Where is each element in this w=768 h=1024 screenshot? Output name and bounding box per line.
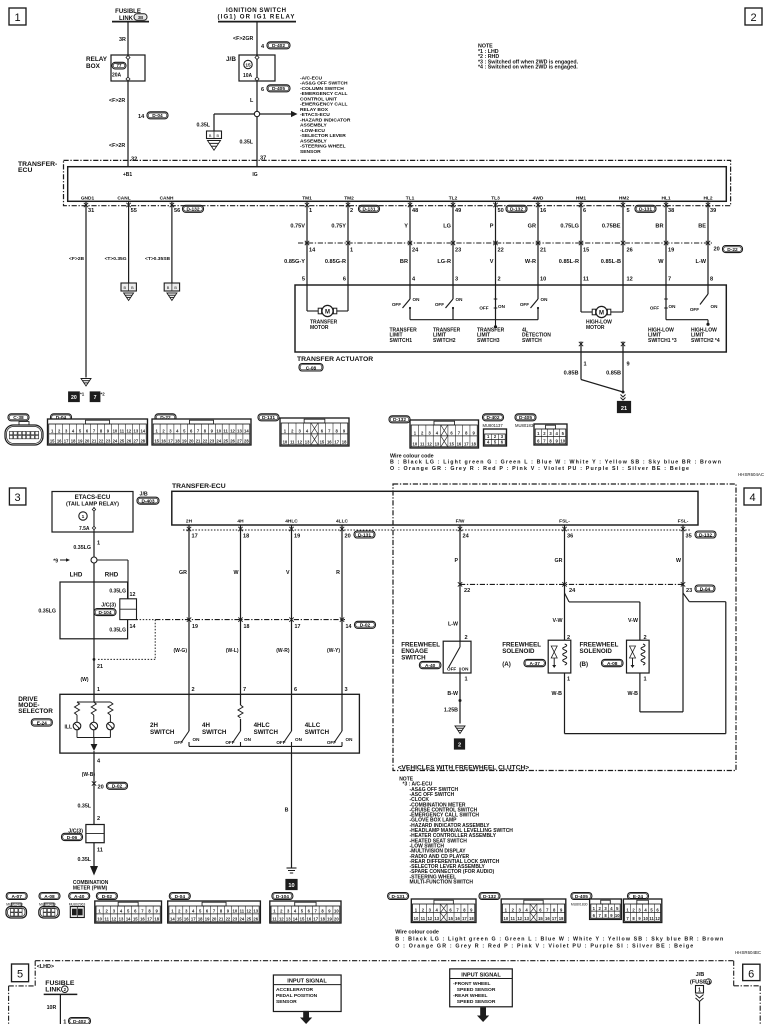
svg-text:1: 1 (97, 687, 100, 693)
svg-text:BOX: BOX (86, 63, 101, 70)
svg-text:GR: GR (528, 224, 536, 230)
svg-text:-STEERING WHEEL: -STEERING WHEEL (300, 144, 346, 150)
svg-text:W: W (676, 558, 681, 564)
svg-text:ON: ON (669, 304, 677, 309)
svg-text:23: 23 (210, 439, 215, 444)
svg-text:12: 12 (427, 916, 432, 921)
svg-text:OFF: OFF (174, 740, 183, 745)
svg-text:D-104: D-104 (276, 894, 289, 900)
svg-text:MOTOR: MOTOR (310, 325, 329, 331)
svg-text:11: 11 (421, 916, 426, 921)
svg-text:1: 1 (567, 677, 570, 683)
svg-text:35: 35 (686, 534, 692, 540)
svg-text:50: 50 (498, 208, 504, 214)
svg-text:OFF: OFF (520, 302, 529, 307)
svg-text:SPEED SENSOR: SPEED SENSOR (457, 999, 496, 1005)
svg-text:0.35L: 0.35L (77, 804, 91, 810)
svg-text:0.35LG: 0.35LG (109, 589, 126, 595)
svg-text:1: 1 (465, 677, 468, 683)
svg-text:(IG1) OR IG1 RELAY: (IG1) OR IG1 RELAY (218, 14, 295, 21)
svg-text:D-02: D-02 (102, 894, 113, 900)
svg-text:ON: ON (462, 667, 470, 672)
svg-text:20A: 20A (112, 73, 122, 79)
svg-text:10: 10 (413, 442, 418, 447)
svg-text:W: W (658, 259, 664, 265)
svg-text:BE: BE (698, 224, 706, 230)
svg-text:6: 6 (294, 687, 297, 693)
svg-text:10A: 10A (243, 73, 253, 79)
svg-text:J/B: J/B (696, 972, 705, 978)
svg-text:14: 14 (126, 917, 131, 922)
svg-text:16: 16 (327, 440, 332, 445)
svg-text:ON: ON (456, 297, 464, 302)
svg-text:19: 19 (205, 917, 210, 922)
svg-text:15: 15 (583, 248, 589, 254)
svg-text:HHSR604AC: HHSR604AC (738, 472, 764, 477)
svg-text:D-132: D-132 (393, 417, 406, 423)
svg-text:OFF: OFF (225, 740, 234, 745)
svg-text:(W-B): (W-B) (82, 772, 96, 778)
svg-text:D-104: D-104 (98, 610, 111, 616)
svg-text:<F>2B: <F>2B (69, 256, 84, 262)
svg-text:F/W: F/W (456, 519, 465, 525)
svg-text:0.85B: 0.85B (606, 371, 621, 377)
svg-text:-REAR WHEEL: -REAR WHEEL (453, 993, 488, 999)
svg-text:D-132: D-132 (699, 532, 712, 538)
svg-text:OFF: OFF (479, 306, 488, 311)
svg-text:TM1: TM1 (302, 196, 312, 202)
svg-text:TRANSFER ACTUATOR: TRANSFER ACTUATOR (297, 356, 373, 363)
svg-text:SPEED SENSOR: SPEED SENSOR (457, 987, 496, 993)
svg-text:1: 1 (644, 677, 647, 683)
svg-text:10: 10 (283, 440, 288, 445)
svg-text:16: 16 (545, 916, 550, 921)
svg-text:11: 11 (420, 442, 425, 447)
svg-text:0.85G-Y: 0.85G-Y (284, 259, 305, 265)
svg-text:B: B (217, 134, 220, 138)
svg-text:21: 21 (621, 406, 627, 412)
svg-text:C-08: C-08 (306, 365, 317, 371)
svg-text:A-07: A-07 (11, 894, 22, 900)
svg-text:SWITCH1 *3: SWITCH1 *3 (648, 338, 677, 344)
svg-text:-EMERGENCY CALL: -EMERGENCY CALL (300, 91, 347, 97)
svg-text:18: 18 (154, 917, 159, 922)
svg-text:17: 17 (168, 439, 173, 444)
svg-text:10: 10 (216, 429, 221, 434)
svg-text:-COLUMN SWITCH: -COLUMN SWITCH (300, 86, 344, 92)
svg-text:M: M (599, 310, 604, 316)
svg-text:16: 16 (307, 917, 312, 922)
svg-text:0.35LG: 0.35LG (38, 609, 56, 615)
svg-text:31: 31 (88, 208, 94, 214)
svg-text:PEDAL POSITION: PEDAL POSITION (276, 993, 318, 999)
svg-text:TRANSFER-ECU: TRANSFER-ECU (172, 483, 226, 490)
svg-text:E-24: E-24 (37, 720, 47, 726)
svg-text:D-131: D-131 (639, 207, 652, 213)
svg-text:10: 10 (643, 916, 648, 921)
svg-text:1: 1 (14, 12, 20, 24)
svg-text:HM1: HM1 (576, 196, 586, 202)
svg-text:14: 14 (130, 624, 136, 630)
svg-text:27: 27 (237, 439, 242, 444)
svg-text:18: 18 (320, 917, 325, 922)
svg-text:7: 7 (94, 395, 97, 401)
svg-text:4HLC: 4HLC (285, 519, 298, 525)
svg-text:B: B (124, 286, 127, 290)
svg-text:32: 32 (131, 157, 137, 163)
svg-text:18: 18 (71, 439, 76, 444)
svg-text:OFF: OFF (276, 740, 285, 745)
svg-text:11: 11 (649, 916, 654, 921)
svg-text:C-38: C-38 (13, 415, 24, 421)
svg-text:11: 11 (120, 429, 125, 434)
svg-text:SOLENOID: SOLENOID (580, 648, 613, 655)
svg-text:7: 7 (668, 277, 671, 283)
svg-text:15: 15 (245, 62, 251, 68)
svg-text:2: 2 (192, 687, 195, 693)
svg-text:10: 10 (615, 913, 620, 918)
svg-text:MU801830: MU801830 (571, 903, 588, 907)
svg-text:21: 21 (92, 439, 97, 444)
svg-text:12: 12 (297, 440, 302, 445)
svg-text:-A/C-ECU: -A/C-ECU (300, 75, 322, 81)
svg-text:HL1: HL1 (661, 196, 670, 202)
svg-text:13: 13 (253, 909, 258, 914)
svg-text:21: 21 (540, 248, 546, 254)
svg-text:1: 1 (698, 987, 701, 993)
svg-text:ON: ON (711, 304, 719, 309)
svg-text:3: 3 (15, 492, 21, 504)
svg-text:0.35L: 0.35L (239, 140, 253, 146)
svg-text:CANH: CANH (160, 196, 174, 202)
svg-text:0.85B: 0.85B (564, 371, 579, 377)
svg-text:14: 14 (309, 248, 316, 254)
svg-text:10R: 10R (47, 1005, 57, 1011)
svg-text:12: 12 (130, 592, 136, 598)
svg-text:CANL: CANL (117, 196, 130, 202)
svg-text:16: 16 (457, 442, 462, 447)
svg-text:INPUT SIGNAL: INPUT SIGNAL (461, 972, 501, 978)
svg-text:METER (PWM): METER (PWM) (73, 886, 108, 892)
svg-text:24: 24 (239, 917, 244, 922)
svg-text:17: 17 (295, 624, 301, 630)
svg-text:B-W: B-W (447, 691, 458, 697)
svg-text:10: 10 (288, 883, 294, 889)
svg-text:MU801830: MU801830 (515, 423, 536, 428)
svg-text:20: 20 (345, 534, 351, 540)
svg-text:15: 15 (449, 442, 454, 447)
svg-text:10: 10 (233, 909, 238, 914)
svg-text:15: 15 (300, 917, 305, 922)
svg-text:B: B (209, 134, 212, 138)
svg-text:14: 14 (170, 917, 175, 922)
svg-text:SWITCH: SWITCH (150, 729, 175, 736)
svg-text:<F>2R: <F>2R (109, 98, 125, 104)
svg-text:D-131: D-131 (262, 415, 275, 421)
svg-text:GR: GR (179, 570, 187, 576)
svg-text:D-02: D-02 (112, 784, 123, 790)
svg-text:R: R (336, 570, 340, 576)
svg-text:L-W: L-W (448, 622, 458, 628)
svg-text:16: 16 (184, 917, 189, 922)
svg-text:19: 19 (327, 917, 332, 922)
svg-text:15: 15 (707, 980, 711, 984)
svg-text:SENSOR: SENSOR (276, 999, 297, 1005)
svg-text:24: 24 (463, 534, 470, 540)
svg-text:SWITCH: SWITCH (305, 729, 330, 736)
svg-text:12: 12 (112, 917, 117, 922)
svg-text:0.35L: 0.35L (77, 857, 91, 863)
svg-text:6: 6 (748, 969, 754, 981)
svg-text:A-08: A-08 (44, 894, 55, 900)
svg-text:A-08: A-08 (607, 661, 618, 667)
svg-text:B: B (131, 286, 134, 290)
svg-text:Wire colour code: Wire colour code (395, 930, 439, 936)
svg-text:ASSEMBLY: ASSEMBLY (300, 123, 327, 129)
svg-text:36: 36 (567, 534, 573, 540)
svg-text:P: P (490, 224, 494, 230)
svg-text:6: 6 (261, 87, 264, 93)
svg-text:18: 18 (244, 624, 250, 630)
svg-text:GND1: GND1 (81, 196, 95, 202)
svg-text:O : Orange GR : Grey R :: O : Orange GR : Grey R : Red P : Pink V … (395, 944, 693, 950)
svg-text:20: 20 (212, 917, 217, 922)
svg-text:15: 15 (448, 916, 453, 921)
svg-text:9: 9 (627, 362, 630, 368)
svg-text:D-403: D-403 (141, 499, 154, 505)
svg-text:18: 18 (198, 917, 203, 922)
svg-text:2: 2 (97, 816, 100, 822)
svg-text:2H: 2H (186, 519, 193, 525)
svg-text:J/C(3): J/C(3) (101, 603, 116, 609)
svg-text:HM2: HM2 (619, 196, 629, 202)
svg-text:M: M (325, 309, 330, 315)
svg-text:8: 8 (710, 277, 713, 283)
svg-text:17: 17 (334, 440, 339, 445)
svg-text:OFF: OFF (447, 667, 456, 672)
svg-text:2: 2 (458, 742, 461, 748)
svg-text:ON: ON (346, 737, 354, 742)
svg-text:BR: BR (400, 259, 408, 265)
svg-text:TL3: TL3 (491, 196, 500, 202)
svg-text:L-W: L-W (695, 259, 706, 265)
svg-text:MULTI-FUNCTION SWITCH: MULTI-FUNCTION SWITCH (410, 880, 474, 886)
svg-text:3: 3 (455, 277, 458, 283)
svg-text:26: 26 (253, 917, 258, 922)
svg-text:24: 24 (113, 439, 118, 444)
svg-text:-AS&G OFF SWITCH: -AS&G OFF SWITCH (300, 81, 348, 87)
svg-text:OFF: OFF (690, 307, 699, 312)
svg-text:D-04: D-04 (152, 113, 163, 119)
svg-text:19: 19 (294, 534, 300, 540)
svg-text:SWITCH: SWITCH (202, 729, 227, 736)
svg-text:INPUT SIGNAL: INPUT SIGNAL (287, 978, 327, 984)
svg-text:2: 2 (567, 635, 570, 641)
svg-text:13: 13 (305, 440, 310, 445)
svg-text:24: 24 (569, 588, 576, 594)
svg-text:2: 2 (465, 635, 468, 641)
svg-text:MOTOR: MOTOR (586, 325, 605, 331)
svg-text:7: 7 (243, 687, 246, 693)
svg-text:W: W (234, 570, 239, 576)
svg-text:D-132: D-132 (510, 207, 523, 213)
svg-text:12: 12 (427, 442, 432, 447)
svg-text:D-405: D-405 (272, 86, 285, 92)
svg-text:(W-L): (W-L) (226, 648, 239, 654)
svg-text:19: 19 (182, 439, 187, 444)
svg-text:11: 11 (104, 917, 109, 922)
svg-text:D-131: D-131 (392, 894, 405, 900)
svg-text:D-22: D-22 (727, 247, 738, 253)
svg-text:6: 6 (343, 277, 346, 283)
svg-text:12: 12 (627, 277, 633, 283)
svg-text:28: 28 (244, 439, 249, 444)
svg-text:18: 18 (471, 442, 476, 447)
svg-text:IG: IG (252, 172, 257, 178)
svg-text:26: 26 (127, 439, 132, 444)
svg-text:11: 11 (290, 440, 295, 445)
svg-text:0.75LG: 0.75LG (560, 224, 579, 230)
svg-text:D-405: D-405 (519, 415, 532, 421)
svg-text:0.35LG: 0.35LG (109, 628, 126, 634)
svg-text:MU802963: MU802963 (69, 903, 86, 907)
svg-text:ACCELERATOR: ACCELERATOR (276, 987, 314, 993)
svg-text:10: 10 (504, 916, 509, 921)
svg-text:15: 15 (133, 917, 138, 922)
svg-text:24: 24 (412, 248, 419, 254)
svg-text:1: 1 (350, 248, 353, 254)
svg-text:B : Black LG : Light green: B : Black LG : Light green G : Green L :… (395, 937, 723, 943)
svg-text:D-04: D-04 (700, 586, 711, 592)
svg-text:1: 1 (97, 541, 100, 547)
svg-text:13: 13 (134, 429, 139, 434)
svg-text:14: 14 (293, 917, 298, 922)
svg-text:ETACS-ECU: ETACS-ECU (75, 494, 111, 501)
svg-text:0.75BE: 0.75BE (602, 224, 621, 230)
svg-text:10: 10 (560, 439, 565, 444)
svg-text:15: 15 (538, 916, 543, 921)
svg-text:17: 17 (462, 916, 467, 921)
svg-text:23: 23 (233, 917, 238, 922)
svg-text:D-131: D-131 (362, 207, 375, 213)
svg-text:*9: *9 (53, 559, 58, 565)
svg-text:<LHD>: <LHD> (37, 964, 54, 970)
svg-text:14: 14 (346, 624, 352, 630)
svg-text:W-B: W-B (552, 691, 563, 697)
svg-text:D-132: D-132 (186, 207, 199, 213)
svg-text:1: 1 (63, 1020, 66, 1024)
svg-text:16: 16 (140, 917, 145, 922)
svg-text:20: 20 (189, 439, 194, 444)
svg-text:TL1: TL1 (406, 196, 415, 202)
svg-text:*1: *1 (80, 392, 85, 397)
svg-text:4WD: 4WD (533, 196, 544, 202)
svg-text:18: 18 (469, 916, 474, 921)
svg-text:ON: ON (244, 737, 252, 742)
svg-text:FSL-: FSL- (678, 519, 689, 525)
svg-text:21: 21 (219, 917, 224, 922)
svg-text:28: 28 (140, 439, 145, 444)
svg-text:22: 22 (203, 439, 208, 444)
svg-text:25: 25 (223, 439, 228, 444)
svg-text:0.85L-B: 0.85L-B (601, 259, 621, 265)
svg-text:(W-G): (W-G) (173, 648, 187, 654)
svg-text:D-02: D-02 (360, 623, 371, 629)
svg-text:10: 10 (97, 917, 102, 922)
svg-text:24: 24 (216, 439, 221, 444)
svg-text:11: 11 (583, 277, 589, 283)
svg-text:V-W: V-W (628, 618, 638, 624)
svg-text:27: 27 (134, 439, 139, 444)
svg-text:-LOW-ECU: -LOW-ECU (300, 128, 325, 134)
svg-text:26: 26 (230, 439, 235, 444)
svg-text:V: V (286, 570, 290, 576)
svg-text:W-B: W-B (628, 691, 639, 697)
svg-text:(W-Y): (W-Y) (327, 648, 340, 654)
svg-text:13: 13 (434, 916, 439, 921)
svg-text:P: P (454, 558, 458, 564)
svg-text:SWITCH2 *4: SWITCH2 *4 (691, 338, 720, 344)
svg-text:14: 14 (140, 429, 145, 434)
svg-text:16: 16 (57, 439, 62, 444)
svg-text:22: 22 (226, 917, 231, 922)
svg-text:15: 15 (154, 439, 159, 444)
svg-text:22: 22 (99, 439, 104, 444)
svg-text:13: 13 (237, 429, 242, 434)
svg-text:0.35LG: 0.35LG (73, 545, 91, 551)
svg-text:4LLC: 4LLC (336, 519, 349, 525)
svg-text:20: 20 (98, 785, 104, 791)
svg-text:17: 17 (192, 534, 198, 540)
svg-text:*2: *2 (101, 392, 106, 397)
svg-text:10: 10 (113, 429, 118, 434)
svg-text:16: 16 (161, 439, 166, 444)
svg-text:12: 12 (246, 909, 251, 914)
svg-text:39: 39 (710, 208, 716, 214)
svg-text:+B1: +B1 (123, 172, 133, 178)
svg-text:56: 56 (174, 208, 180, 214)
svg-text:23: 23 (686, 588, 692, 594)
svg-text:17: 17 (64, 439, 69, 444)
svg-text:<T>0.35G: <T>0.35G (105, 256, 127, 262)
svg-text:12: 12 (127, 429, 132, 434)
svg-text:5: 5 (17, 969, 23, 981)
svg-text:A-37: A-37 (530, 661, 541, 667)
svg-text:5: 5 (302, 277, 305, 283)
svg-text:ON: ON (413, 297, 421, 302)
svg-text:13: 13 (524, 916, 529, 921)
svg-text:(A): (A) (502, 661, 511, 668)
svg-text:J/B: J/B (226, 56, 236, 63)
svg-text:20: 20 (85, 439, 90, 444)
svg-text:3: 3 (345, 687, 348, 693)
svg-text:18: 18 (559, 916, 564, 921)
svg-text:OFF: OFF (650, 306, 659, 311)
svg-text:OFF: OFF (392, 302, 401, 307)
svg-text:1.25B: 1.25B (444, 708, 458, 714)
svg-text:D-131: D-131 (358, 532, 371, 538)
svg-text:RHD: RHD (105, 572, 119, 579)
svg-text:11: 11 (511, 916, 516, 921)
svg-text:D-405: D-405 (575, 894, 588, 900)
svg-text:16: 16 (540, 208, 546, 214)
svg-text:14: 14 (244, 429, 249, 434)
svg-text:W-R: W-R (525, 259, 536, 265)
svg-text:0.85G-R: 0.85G-R (325, 259, 346, 265)
svg-text:25: 25 (120, 439, 125, 444)
svg-text:11: 11 (97, 848, 103, 854)
svg-text:21: 21 (196, 439, 201, 444)
